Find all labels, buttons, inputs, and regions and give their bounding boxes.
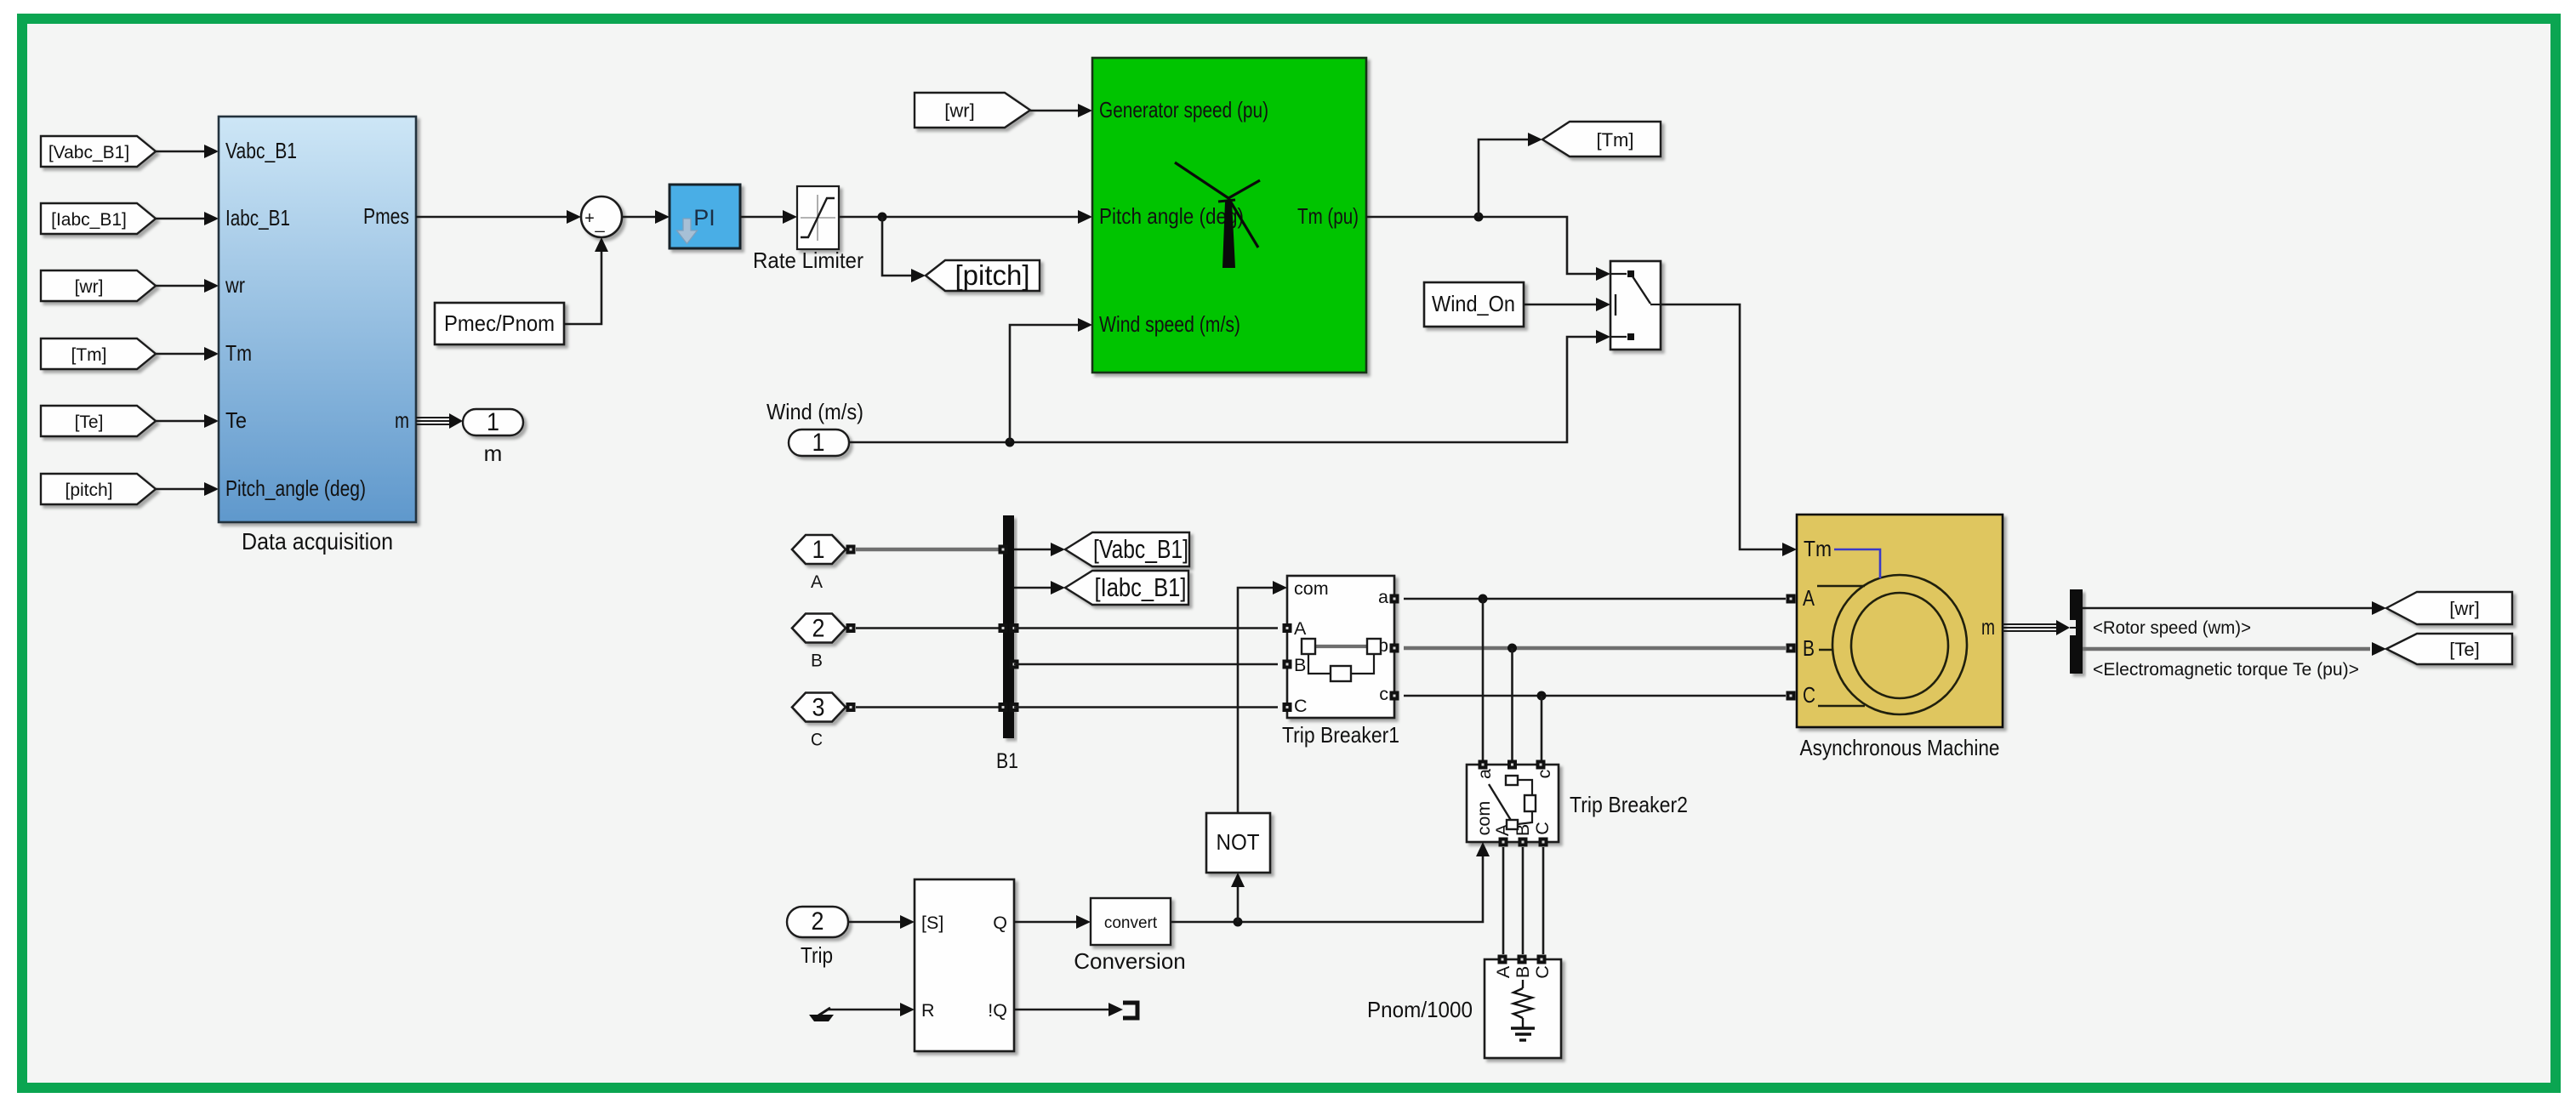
- svg-text:Trip Breaker1: Trip Breaker1: [1282, 722, 1399, 748]
- node c: [1537, 691, 1547, 701]
- svg-text:B1: B1: [996, 749, 1018, 773]
- subsystem Wind Turbine (green): [1092, 58, 1366, 373]
- From tag [Te]: [41, 406, 156, 436]
- wire rotor speed: [2083, 607, 2373, 610]
- constant Wind_On: [1424, 282, 1524, 327]
- outport 1 (m): [463, 409, 523, 435]
- load icon: resistor + ground: [1522, 980, 1524, 988]
- svg-text:Vabc_B1: Vabc_B1: [225, 138, 297, 163]
- wire Trip to S input: [848, 921, 901, 924]
- svg-text:Pitch_angle (deg): Pitch_angle (deg): [225, 475, 366, 501]
- wire wind: [849, 337, 1597, 442]
- ground: [818, 1008, 830, 1015]
- machine stubs: [1817, 585, 1865, 587]
- svg-text:[S]: [S]: [921, 913, 943, 933]
- svg-text:[Te]: [Te]: [75, 412, 104, 432]
- wire: [1524, 304, 1597, 306]
- connection port 2 (B): [792, 614, 846, 643]
- wire electromagnetic torque (gray): [2083, 647, 2370, 651]
- Goto tag [pitch]: [926, 260, 1040, 291]
- breaker Trip Breaker1: [1287, 576, 1394, 718]
- breaker2 icon: [1506, 776, 1518, 785]
- svg-text:[Vabc_B1]: [Vabc_B1]: [48, 143, 129, 162]
- svg-text:C: C: [1294, 696, 1308, 716]
- svg-text:c: c: [1379, 684, 1388, 704]
- three-phase load Pnom/1000: [1485, 959, 1561, 1058]
- svg-text:<Electromagnetic torque Te (pu: <Electromagnetic torque Te (pu)>: [2093, 660, 2359, 680]
- wire: [156, 285, 205, 287]
- wire B1 to [Vabc_B1]: [1014, 549, 1051, 551]
- svg-text:PI: PI: [693, 205, 715, 230]
- wire NOT out to Trip Breaker1 com: [1238, 588, 1274, 813]
- wire b-phase (gray): [1404, 646, 1786, 651]
- svg-text:Generator speed (pu): Generator speed (pu): [1099, 97, 1268, 122]
- switch block: [1610, 261, 1661, 350]
- svg-text:[wr]: [wr]: [944, 100, 974, 122]
- svg-text:Pmes: Pmes: [363, 203, 409, 229]
- svg-text:a: a: [1378, 587, 1388, 607]
- bus B1: [1003, 515, 1014, 738]
- wire B1 to Trip Breaker1 C: [1014, 706, 1278, 708]
- svg-text:Q: Q: [993, 913, 1007, 933]
- wire B1 to Trip Breaker1 B: [1014, 663, 1278, 666]
- wire: [1030, 110, 1079, 112]
- svg-text:!Q: !Q: [988, 1000, 1007, 1021]
- svg-text:Iabc_B1: Iabc_B1: [225, 205, 290, 230]
- svg-text:A: A: [1803, 585, 1815, 611]
- svg-text:<Rotor speed (wm)>: <Rotor speed (wm)>: [2093, 618, 2251, 638]
- svg-text:Pmec/Pnom: Pmec/Pnom: [444, 310, 555, 336]
- Asynchronous Machine block: [1797, 515, 2003, 727]
- wire: [156, 218, 205, 220]
- svg-text:[wr]: [wr]: [75, 277, 104, 297]
- machine Tm wire (blue): [1834, 549, 1880, 578]
- svg-text:C: C: [811, 730, 823, 750]
- From tag [wr] top: [915, 93, 1030, 128]
- svg-text:Conversion: Conversion: [1074, 948, 1186, 974]
- Goto tag [Vabc_B1]: [1065, 532, 1189, 566]
- svg-text:m: m: [484, 441, 503, 466]
- breaker1 icon: [1315, 645, 1367, 648]
- svg-text:Trip Breaker2: Trip Breaker2: [1570, 792, 1688, 817]
- S-R flip-flop block: [915, 879, 1014, 1051]
- svg-text:[Iabc_B1]: [Iabc_B1]: [51, 210, 127, 230]
- node after Rate Limiter: [878, 213, 887, 222]
- Rate Limiter block: [797, 186, 839, 249]
- svg-text:A: A: [1294, 618, 1307, 639]
- svg-text:Wind speed (m/s): Wind speed (m/s): [1099, 311, 1240, 337]
- svg-text:B: B: [1803, 635, 1815, 661]
- svg-text:A: A: [1493, 965, 1513, 978]
- wire Tm (pu): [1366, 217, 1597, 274]
- svg-text:2: 2: [812, 615, 825, 643]
- node b: [1507, 644, 1517, 653]
- bus selector: [2070, 589, 2083, 674]
- connection port 3 (C): [792, 693, 846, 722]
- wire: [156, 353, 205, 356]
- sum block: [581, 196, 622, 237]
- svg-text:2: 2: [812, 907, 824, 936]
- svg-text:[Tm]: [Tm]: [1597, 129, 1634, 151]
- svg-text:3: 3: [812, 694, 825, 722]
- logic NOT block: [1206, 813, 1270, 873]
- svg-text:com: com: [1294, 578, 1329, 599]
- svg-text:c: c: [1534, 769, 1554, 778]
- wire a-phase: [1404, 598, 1786, 600]
- inport 2 Trip: [787, 907, 848, 937]
- constant Pmec/Pnom: [435, 303, 564, 344]
- Goto tag [Te] right: [2386, 634, 2512, 664]
- wire: [156, 488, 205, 491]
- Goto tag [Tm]: [1542, 122, 1661, 156]
- wire to [Tm] goto: [1479, 139, 1529, 217]
- wire: [156, 151, 205, 153]
- breaker Trip Breaker2: [1467, 765, 1559, 842]
- svg-text:m: m: [395, 407, 409, 433]
- wire m (vector): [416, 417, 450, 418]
- svg-text:Tm (pu): Tm (pu): [1297, 203, 1359, 229]
- svg-text:[Te]: [Te]: [2449, 639, 2479, 660]
- svg-text:C: C: [1532, 822, 1553, 835]
- wire B1 to [Iabc_B1]: [1014, 587, 1051, 589]
- wire ground to R: [827, 1009, 901, 1011]
- svg-text:Asynchronous Machine: Asynchronous Machine: [1800, 735, 2000, 760]
- wire port2 to B1: [856, 627, 1003, 629]
- wire sum to PI: [622, 216, 656, 219]
- svg-text:Rate Limiter: Rate Limiter: [753, 247, 863, 273]
- svg-text:[Tm]: [Tm]: [71, 345, 107, 365]
- From tag [Tm]: [41, 338, 156, 369]
- svg-text:C: C: [1532, 965, 1553, 979]
- svg-text:_: _: [594, 214, 605, 233]
- svg-text:[pitch]: [pitch]: [65, 481, 112, 500]
- From tag [Vabc_B1]: [41, 136, 156, 167]
- wires Trip Breaker2 to load: [1502, 847, 1505, 954]
- wire port1 to B1 (gray): [856, 548, 1003, 552]
- svg-text:A: A: [811, 572, 824, 592]
- subsystem Data acquisition: [219, 117, 416, 522]
- svg-text:Tm: Tm: [225, 340, 252, 366]
- connection port 1 (A): [792, 535, 846, 564]
- wire Rate Limiter to Wind Turbine Pitch angle: [839, 216, 1079, 219]
- node: [1234, 918, 1243, 927]
- wire port3 to B1: [856, 706, 1003, 708]
- wire PI to Rate Limiter: [740, 216, 784, 219]
- From tag [wr]: [41, 270, 156, 301]
- svg-text:1: 1: [812, 429, 825, 457]
- wire Pmec/Pnom to sum: [564, 251, 601, 324]
- svg-text:C: C: [1803, 682, 1815, 708]
- svg-text:[Iabc_B1]: [Iabc_B1]: [1095, 572, 1187, 602]
- svg-text:R: R: [921, 1000, 935, 1021]
- svg-text:Tm: Tm: [1804, 536, 1832, 561]
- svg-text:NOT: NOT: [1217, 829, 1260, 855]
- terminator: [1123, 1003, 1137, 1018]
- wire B1 to Trip Breaker1 A: [1014, 627, 1278, 629]
- svg-text:[wr]: [wr]: [2449, 598, 2479, 619]
- svg-text:1: 1: [487, 408, 499, 436]
- svg-text:Wind_On: Wind_On: [1432, 291, 1515, 316]
- svg-text:[pitch]: [pitch]: [955, 259, 1029, 291]
- wire switch out to machine Tm: [1661, 304, 1783, 549]
- wire: [156, 420, 205, 423]
- node a / Trip Breaker2 drop: [1479, 594, 1488, 604]
- Goto tag [Iabc_B1]: [1065, 571, 1188, 605]
- PI icon arrow: [677, 219, 698, 244]
- svg-text:B: B: [811, 651, 823, 671]
- svg-text:wr: wr: [225, 272, 245, 298]
- svg-text:Pitch angle (deg): Pitch angle (deg): [1099, 203, 1244, 229]
- Goto tag [wr] right: [2386, 592, 2512, 624]
- PI controller block: [670, 185, 740, 248]
- svg-text:Pnom/1000: Pnom/1000: [1367, 997, 1473, 1022]
- svg-text:Data acquisition: Data acquisition: [242, 528, 393, 555]
- From tag [pitch]: [41, 474, 156, 504]
- svg-text:[Vabc_B1]: [Vabc_B1]: [1093, 534, 1188, 564]
- svg-text:+: +: [584, 209, 595, 228]
- svg-text:Wind (m/s): Wind (m/s): [767, 399, 863, 424]
- wire branch up to NOT: [1237, 886, 1240, 922]
- svg-text:com: com: [1473, 801, 1494, 836]
- svg-text:B: B: [1294, 655, 1306, 675]
- wire convert out to Trip Breaker2 com: [1171, 856, 1483, 922]
- wire Q to Conversion: [1014, 921, 1077, 924]
- wire !Q to terminator: [1014, 1009, 1109, 1011]
- machine m output (vector): [2003, 623, 2058, 625]
- wire Pmes: [416, 216, 567, 219]
- svg-text:Te: Te: [225, 407, 247, 433]
- wire branch to Wind speed input: [1010, 325, 1079, 442]
- From tag [Iabc_B1]: [41, 203, 156, 234]
- svg-text:B: B: [1513, 966, 1533, 978]
- svg-text:Trip: Trip: [801, 942, 833, 968]
- wind turbine icon: [1175, 162, 1260, 247]
- svg-text:1: 1: [812, 536, 825, 564]
- wire c-phase: [1404, 695, 1786, 697]
- machine icon rings: [1832, 575, 1967, 714]
- svg-text:a: a: [1474, 769, 1495, 779]
- wire branch to [pitch] goto: [882, 217, 912, 276]
- svg-text:m: m: [1981, 614, 1995, 640]
- Conversion block: [1091, 898, 1171, 945]
- svg-text:convert: convert: [1104, 914, 1158, 932]
